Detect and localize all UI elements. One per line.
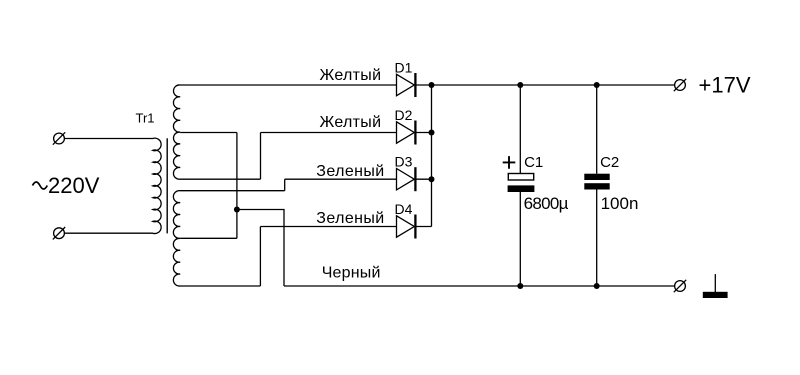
wire D4 line (260, 226, 396, 228)
svg-text:C1: C1 (524, 154, 543, 171)
capacitor C1 (electrolytic) (508, 174, 535, 193)
transformer Tr1 secondary winding A (lead to D1 and lead to D2 vertical) (173, 85, 396, 179)
svg-text:Черный: Черный (322, 264, 381, 281)
C1 polarity plus (503, 156, 516, 169)
junction dot C2 bottom (594, 283, 600, 289)
svg-text:D3: D3 (395, 154, 413, 170)
svg-text:Желтый: Желтый (320, 114, 382, 131)
svg-text:+17V: +17V (699, 73, 751, 98)
wire C1 vertical (519, 85, 521, 286)
svg-text:D2: D2 (395, 107, 413, 123)
terminal input N (bottom) (53, 227, 65, 239)
wire vertical joining taps (236, 133, 238, 239)
diode D3 (397, 167, 416, 191)
terminal output +17V (674, 79, 686, 91)
ground (703, 274, 728, 298)
transformer Tr1 core (166, 138, 168, 233)
junction dot bus D2 (429, 130, 435, 136)
svg-text:6800µ: 6800µ (524, 194, 569, 213)
terminal input L (top) (53, 132, 65, 144)
transformer Tr1 secondary winding B (lead to D3 vertical and lead to D4 vertical) (173, 191, 284, 286)
junction dot bus D3 (429, 176, 435, 182)
wire D4 feed vertical (259, 227, 261, 287)
transformer Tr1 primary winding (with input wires) (65, 138, 162, 233)
capacitor C2 (584, 174, 609, 190)
wire winding B center tap (180, 237, 237, 239)
diode D1 (397, 73, 416, 97)
wire winding A center tap (180, 132, 237, 134)
wire D4 cathode to bus (415, 226, 431, 228)
diode D2 (397, 121, 416, 145)
wire C2 vertical (596, 85, 598, 286)
junction dot bus D1 (429, 82, 435, 88)
wire D2 feed vertical (260, 133, 262, 180)
junction dot C2 top (594, 82, 600, 88)
svg-text:C2: C2 (600, 154, 619, 171)
wire D1 cathode to bus (415, 84, 431, 86)
wire D3 line (285, 178, 397, 180)
junction dot C1 bottom (517, 283, 523, 289)
wire common bottom rail (284, 285, 674, 287)
wire D2 line (261, 132, 397, 134)
svg-text:D1: D1 (395, 59, 413, 75)
svg-text:Желтый: Желтый (320, 67, 382, 84)
svg-text:100n: 100n (601, 194, 639, 213)
wire D3 cathode to bus (415, 178, 431, 180)
junction dot taps (234, 207, 240, 213)
svg-text:Зеленый: Зеленый (316, 163, 384, 180)
label ~220V (33, 173, 100, 198)
diode D4 (397, 215, 416, 239)
wire D2 cathode to bus (415, 132, 431, 134)
svg-text:D4: D4 (395, 201, 413, 217)
svg-text:220V: 220V (48, 173, 100, 198)
junction dot C1 top (517, 82, 523, 88)
terminal output common (674, 280, 686, 292)
wire cathode bus (431, 85, 433, 227)
wire D3 feed vertical (284, 179, 286, 191)
wire dot to black rail (common) (237, 210, 284, 287)
svg-text:Зеленый: Зеленый (316, 210, 384, 227)
svg-text:Tr1: Tr1 (136, 110, 155, 125)
wire +17V top rail (432, 84, 675, 86)
